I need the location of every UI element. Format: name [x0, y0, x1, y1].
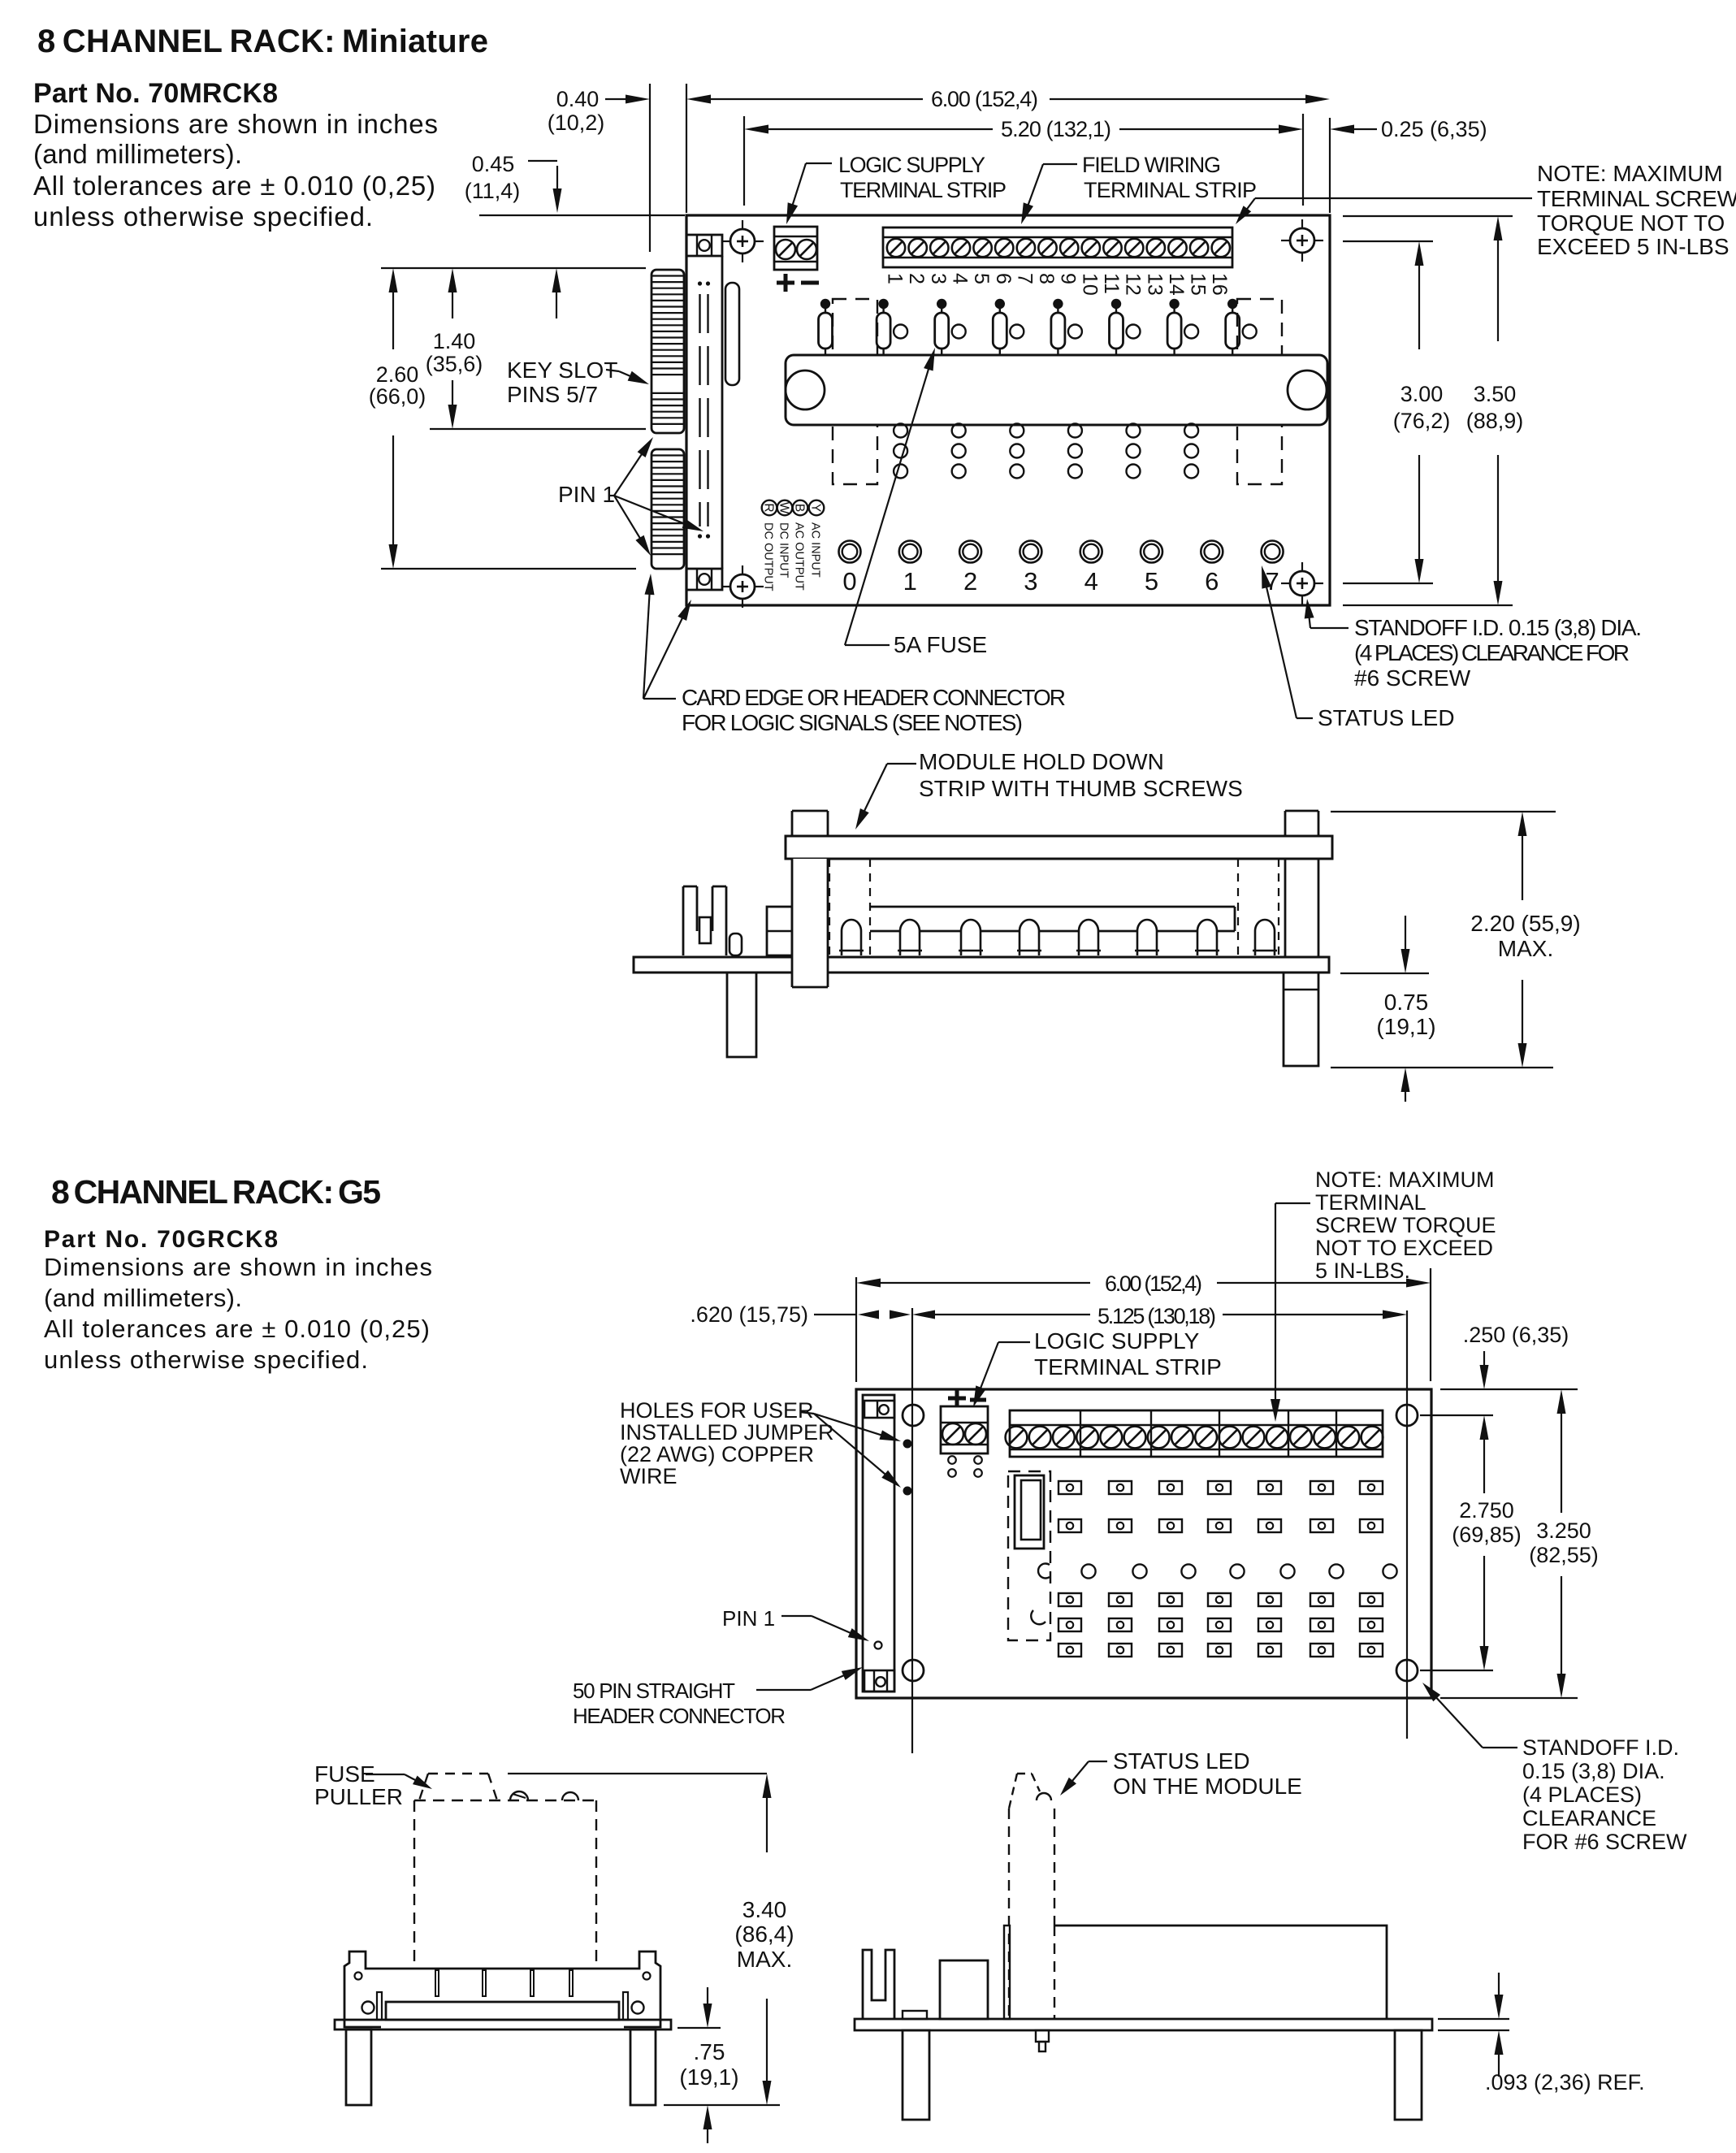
vertical legend text	[762, 522, 822, 591]
svg-text:(76,2): (76,2)	[1393, 409, 1451, 433]
svg-text:(10,2): (10,2)	[548, 110, 605, 135]
extension line board-right	[1329, 118, 1331, 213]
svg-text:6: 6	[992, 273, 1015, 284]
right leg	[1284, 973, 1318, 1066]
status LED dashed stack	[1009, 1774, 1054, 2019]
module body side	[1054, 1926, 1387, 2019]
left thumbscrew shaft through board	[792, 859, 828, 987]
polarity marks G5	[948, 1389, 986, 1407]
dim 0.45 (11,4)	[465, 152, 562, 213]
svg-text:2.60: 2.60	[376, 362, 419, 387]
dim 2.20 (55,9) MAX	[1331, 812, 1581, 1068]
svg-text:AC INPUT: AC INPUT	[809, 522, 822, 578]
svg-text:(19,1): (19,1)	[1376, 1014, 1435, 1039]
svg-text:FOR #6 SCREW: FOR #6 SCREW	[1522, 1830, 1687, 1854]
svg-text:R: R	[761, 503, 775, 512]
module hold down strip bar	[786, 355, 1327, 425]
dim 6.00 (152,4) G5	[856, 1271, 1431, 1296]
svg-text:(88,9): (88,9)	[1466, 409, 1524, 433]
mounting hole bottom-left	[730, 574, 755, 599]
legs lateral	[903, 2030, 929, 2120]
component pads grid G5	[1058, 1481, 1383, 1494]
dim 3.40 (86,4) MAX	[508, 1774, 794, 2105]
svg-text:STATUS LED: STATUS LED	[1318, 705, 1455, 730]
note maximum terminal screw torque G5	[1271, 1167, 1496, 1422]
construction line board right	[1430, 1268, 1431, 1381]
board-top reference line extended left	[479, 214, 685, 216]
dim 5.20 (132,1)	[744, 117, 1303, 141]
callout 5A FUSE	[845, 348, 987, 657]
left leg	[727, 973, 756, 1057]
svg-text:CLEARANCE: CLEARANCE	[1522, 1806, 1656, 1830]
callout PIN 1 with three leaders	[558, 437, 703, 556]
svg-text:(86,4): (86,4)	[734, 1921, 794, 1947]
svg-text:8 CHANNEL RACK: Miniature: 8 CHANNEL RACK: Miniature	[37, 24, 488, 59]
svg-text:(4 PLACES): (4 PLACES)	[1522, 1783, 1642, 1807]
svg-text:(and millimeters).: (and millimeters).	[33, 139, 242, 169]
svg-text:2.750: 2.750	[1459, 1498, 1514, 1523]
svg-text:9: 9	[1057, 273, 1080, 284]
svg-text:SCREW TORQUE: SCREW TORQUE	[1315, 1213, 1496, 1237]
note maximum terminal screw torque	[1236, 161, 1736, 259]
svg-text:All tolerances are ± 0.010 (0,: All tolerances are ± 0.010 (0,25)	[33, 171, 435, 201]
callout KEY SLOT PINS 5/7	[507, 357, 649, 407]
svg-text:.250 (6,35): .250 (6,35)	[1463, 1323, 1569, 1347]
construction line board left	[855, 1277, 857, 1382]
hold down strip bar side	[786, 836, 1332, 859]
svg-text:NOT TO EXCEED: NOT TO EXCEED	[1315, 1236, 1493, 1260]
svg-text:50 PIN STRAIGHT: 50 PIN STRAIGHT	[573, 1679, 735, 1703]
svg-text:STATUS LED: STATUS LED	[1113, 1748, 1250, 1774]
svg-text:(66,0): (66,0)	[369, 384, 426, 409]
svg-text:Y: Y	[808, 504, 822, 512]
right vertical dims reference lines	[1343, 215, 1513, 217]
svg-text:14: 14	[1165, 273, 1188, 296]
svg-text:INSTALLED JUMPER: INSTALLED JUMPER	[620, 1420, 834, 1445]
module dashed outline left pair	[829, 859, 830, 957]
socket lower bar	[362, 1992, 644, 2020]
svg-text:TERMINAL SCREW: TERMINAL SCREW	[1537, 186, 1736, 211]
board outline	[686, 215, 1330, 605]
connector pin rows (hidden lines)	[698, 281, 710, 538]
fork bracket left	[683, 886, 726, 955]
dim .093 (2,36) REF.	[1438, 1973, 1645, 2095]
screw tip under board	[1036, 2030, 1049, 2051]
socket left bracket	[344, 1952, 381, 2027]
svg-text:PIN 1: PIN 1	[722, 1606, 775, 1631]
svg-text:FOR LOGIC SIGNALS (SEE NOTES): FOR LOGIC SIGNALS (SEE NOTES)	[682, 710, 1023, 735]
svg-text:.620 (15,75): .620 (15,75)	[690, 1302, 808, 1327]
svg-text:3: 3	[1024, 567, 1037, 596]
baseboard	[634, 957, 1329, 973]
svg-text:5.125 (130,18): 5.125 (130,18)	[1097, 1304, 1216, 1328]
callout 50 PIN STRAIGHT HEADER CONNECTOR	[573, 1667, 863, 1728]
svg-text:10: 10	[1078, 273, 1101, 296]
svg-text:MAX.: MAX.	[1498, 936, 1553, 961]
svg-text:LOGIC SUPPLY: LOGIC SUPPLY	[838, 153, 985, 177]
key tab slot	[725, 283, 739, 385]
callout MODULE HOLD DOWN STRIP	[855, 749, 1243, 830]
mounting hole bottom-right	[1290, 571, 1314, 596]
svg-text:0.45: 0.45	[472, 152, 515, 176]
svg-text:PIN 1: PIN 1	[558, 482, 615, 507]
mounting hole top-left	[730, 229, 755, 253]
svg-text:#6 SCREW: #6 SCREW	[1354, 665, 1471, 691]
LED domes	[839, 920, 864, 955]
fuse F0	[819, 299, 833, 355]
svg-text:13: 13	[1143, 273, 1166, 296]
left thumbscrew post	[792, 811, 828, 836]
callout STATUS LED	[1262, 565, 1455, 730]
fuse F4	[1051, 299, 1082, 355]
color code circled letters	[761, 500, 824, 516]
logic supply terminal strip	[774, 227, 817, 270]
svg-text:LOGIC SUPPLY: LOGIC SUPPLY	[1034, 1328, 1200, 1354]
fuse F2	[935, 299, 966, 355]
mounting hole top-right	[1290, 228, 1314, 253]
svg-text:11: 11	[1100, 273, 1123, 294]
svg-text:7: 7	[1013, 273, 1036, 284]
board outline G5	[856, 1389, 1431, 1698]
svg-text:6: 6	[1205, 567, 1219, 596]
svg-text:(and millimeters).: (and millimeters).	[44, 1284, 242, 1312]
module dashed outline front	[414, 1800, 596, 1969]
callout CARD EDGE OR HEADER CONNECTOR	[643, 574, 1066, 735]
field wiring terminal strip G5	[1006, 1410, 1383, 1457]
status LED 1	[899, 541, 921, 563]
callout STANDOFF I.D. G5	[1422, 1683, 1687, 1854]
50 pin header connector body	[863, 1395, 894, 1692]
svg-text:HEADER CONNECTOR: HEADER CONNECTOR	[573, 1704, 786, 1728]
svg-text:2: 2	[905, 273, 928, 284]
fuse F5	[1110, 299, 1141, 355]
svg-text:8 CHANNEL RACK: G5: 8 CHANNEL RACK: G5	[51, 1173, 381, 1211]
svg-text:EXCEED 5 IN-LBS: EXCEED 5 IN-LBS	[1537, 234, 1730, 259]
fuse F3	[993, 299, 1024, 355]
svg-text:WIRE: WIRE	[620, 1464, 678, 1488]
svg-text:0.15 (3,8) DIA.: 0.15 (3,8) DIA.	[1522, 1759, 1665, 1783]
status LED 4	[1080, 541, 1102, 563]
pin 1 hole	[875, 1642, 882, 1649]
status LED 7	[1262, 541, 1284, 563]
callout STATUS LED ON THE MODULE	[1060, 1748, 1302, 1799]
dim 3.00 (76,2)	[1393, 241, 1451, 583]
svg-text:6.00 (152,4): 6.00 (152,4)	[931, 87, 1038, 111]
svg-text:5: 5	[970, 273, 993, 284]
svg-text:1.40: 1.40	[433, 329, 476, 353]
callout PIN 1 G5	[722, 1606, 869, 1641]
dim .75 (19,1) front	[678, 1987, 739, 2143]
svg-text:0.75: 0.75	[1384, 990, 1429, 1015]
svg-text:4: 4	[949, 273, 972, 284]
svg-text:8: 8	[1035, 273, 1058, 284]
terminal numbers 1-16	[884, 273, 1232, 296]
svg-text:(19,1): (19,1)	[679, 2064, 738, 2090]
svg-text:5 IN-LBS.: 5 IN-LBS.	[1315, 1258, 1410, 1283]
svg-text:15: 15	[1187, 273, 1210, 296]
svg-text:TERMINAL STRIP: TERMINAL STRIP	[1034, 1354, 1222, 1380]
dim 0.40 (10,2)	[548, 87, 650, 135]
svg-text:CARD EDGE OR HEADER CONNECTOR: CARD EDGE OR HEADER CONNECTOR	[682, 685, 1066, 710]
svg-text:MODULE HOLD DOWN: MODULE HOLD DOWN	[919, 749, 1164, 774]
svg-text:.093 (2,36) REF.: .093 (2,36) REF.	[1485, 2070, 1645, 2095]
left vertical dims reference lines	[381, 267, 646, 269]
LED bumps on module top	[510, 1791, 578, 1800]
svg-text:STANDOFF I.D.: STANDOFF I.D.	[1522, 1735, 1679, 1760]
svg-text:Part No. 70MRCK8: Part No. 70MRCK8	[33, 78, 278, 109]
dim 2.60 (66,0)	[369, 268, 426, 569]
callout STANDOFF I.D.	[1305, 599, 1642, 691]
svg-text:2: 2	[963, 567, 977, 596]
svg-text:5A FUSE: 5A FUSE	[894, 632, 987, 657]
svg-text:unless otherwise specified.: unless otherwise specified.	[44, 1345, 368, 1374]
svg-text:(35,6): (35,6)	[426, 352, 483, 376]
svg-text:0: 0	[842, 567, 856, 596]
callout HOLES FOR USER INSTALLED JUMPER	[620, 1398, 901, 1488]
svg-text:TERMINAL: TERMINAL	[1315, 1190, 1426, 1215]
construction line right hole column	[1406, 1310, 1408, 1739]
svg-text:NOTE: MAXIMUM: NOTE: MAXIMUM	[1315, 1167, 1495, 1192]
dim 1.40 (35,6)	[426, 268, 483, 429]
svg-text:(22 AWG) COPPER: (22 AWG) COPPER	[620, 1442, 814, 1466]
extension line hole column left	[743, 116, 745, 206]
thin wall	[1004, 1926, 1010, 2019]
svg-text:3.250: 3.250	[1536, 1518, 1591, 1543]
svg-text:Dimensions are shown in inches: Dimensions are shown in inches	[33, 109, 438, 139]
logic supply terminal strip G5	[941, 1406, 988, 1477]
svg-text:3.50: 3.50	[1474, 382, 1517, 406]
svg-text:16: 16	[1208, 273, 1231, 296]
component pad circles grid	[894, 424, 1198, 479]
svg-text:2.20 (55,9): 2.20 (55,9)	[1470, 911, 1580, 936]
module dashed outline right pair	[1237, 859, 1239, 957]
svg-text:(69,85): (69,85)	[1452, 1523, 1522, 1547]
dim .620 (15,75)	[690, 1302, 911, 1327]
svg-text:unless otherwise specified.: unless otherwise specified.	[33, 201, 373, 232]
tolerance paragraph G5	[44, 1253, 432, 1374]
extra up arrow on comb-top line	[556, 283, 557, 318]
svg-text:TERMINAL STRIP: TERMINAL STRIP	[1084, 178, 1257, 202]
svg-text:3.00: 3.00	[1400, 382, 1444, 406]
connector body right edge	[721, 256, 724, 569]
svg-text:.75: .75	[694, 2039, 725, 2064]
extension line hole column right	[1302, 114, 1304, 206]
svg-text:AC OUTPUT: AC OUTPUT	[793, 522, 806, 591]
status LED 2	[959, 541, 981, 563]
baseboard front	[335, 2020, 671, 2030]
dim .250 (6,35)	[1463, 1323, 1569, 1389]
svg-text:NOTE: MAXIMUM: NOTE: MAXIMUM	[1537, 161, 1723, 186]
svg-text:3: 3	[927, 273, 950, 284]
tolerance paragraph	[33, 109, 438, 232]
card edge connector comb lower block	[652, 449, 684, 569]
module position dashed outline right	[1237, 299, 1282, 484]
svg-text:HOLES FOR USER: HOLES FOR USER	[620, 1398, 814, 1423]
svg-text:B: B	[792, 504, 806, 512]
dim 6.00 (152,4)	[686, 87, 1330, 111]
dim 0.75 (19,1)	[1340, 916, 1436, 1102]
construction line left hole column	[911, 1308, 913, 1753]
field wiring terminal strip	[883, 227, 1232, 267]
extension line board-left	[686, 84, 687, 213]
fork bracket G5 side	[863, 1950, 894, 2019]
svg-text:0.40: 0.40	[556, 87, 600, 111]
svg-text:12: 12	[1122, 273, 1145, 296]
dim 2.750 (69,85)	[1452, 1415, 1522, 1670]
fuse holder with dashed outline	[1008, 1471, 1050, 1640]
svg-text:5.20 (132,1): 5.20 (132,1)	[1001, 117, 1111, 141]
socket right bracket	[624, 1952, 660, 2027]
svg-text:DC INPUT: DC INPUT	[777, 522, 790, 578]
svg-text:STRIP WITH THUMB SCREWS: STRIP WITH THUMB SCREWS	[919, 776, 1243, 801]
svg-text:(82,55): (82,55)	[1529, 1543, 1599, 1567]
svg-text:DC OUTPUT: DC OUTPUT	[762, 522, 775, 591]
status LED 5	[1141, 541, 1162, 563]
svg-text:(4 PLACES) CLEARANCE FOR: (4 PLACES) CLEARANCE FOR	[1354, 640, 1630, 665]
status LED 3	[1020, 541, 1041, 563]
right thumbscrew post	[1285, 811, 1318, 957]
svg-text:All tolerances are ± 0.010 (0,: All tolerances are ± 0.010 (0,25)	[44, 1315, 430, 1343]
card edge connector comb upper block	[652, 270, 684, 433]
svg-text:STANDOFF I.D. 0.15 (3,8) DIA.: STANDOFF I.D. 0.15 (3,8) DIA.	[1354, 615, 1642, 640]
svg-text:Dimensions are shown in inches: Dimensions are shown in inches	[44, 1253, 432, 1281]
status LED 6	[1201, 541, 1223, 563]
svg-text:1: 1	[884, 273, 907, 284]
dim 3.50 (88,9)	[1466, 216, 1524, 605]
dim 3.250 (82,55)	[1529, 1389, 1599, 1698]
svg-text:3.40: 3.40	[742, 1897, 787, 1922]
reference lines right G5	[1440, 1388, 1578, 1390]
svg-text:5: 5	[1145, 567, 1158, 596]
svg-text:KEY SLOT: KEY SLOT	[507, 357, 617, 383]
svg-text:PULLER: PULLER	[314, 1784, 403, 1809]
callout FIELD WIRING TERMINAL STRIP	[1021, 153, 1257, 224]
svg-text:FIELD WIRING: FIELD WIRING	[1082, 153, 1221, 177]
module position dashed outline left	[833, 299, 877, 484]
plain hole circles row	[1081, 1564, 1396, 1578]
callout FUSE PULLER	[314, 1761, 432, 1809]
fuse F1	[877, 299, 907, 355]
svg-text:MAX.: MAX.	[737, 1947, 792, 1972]
jumper holes	[903, 1440, 912, 1449]
connector profile block	[767, 907, 792, 955]
fuse F7	[1226, 299, 1257, 355]
LED digit labels	[842, 567, 1279, 596]
svg-text:1: 1	[903, 567, 917, 596]
baseboard lateral	[855, 2019, 1432, 2030]
fuse F6	[1167, 299, 1198, 355]
callout LOGIC SUPPLY TERMINAL STRIP	[786, 153, 1007, 224]
svg-text:(11,4): (11,4)	[465, 179, 521, 203]
mounting holes G5	[903, 1405, 924, 1426]
svg-text:TORQUE NOT TO: TORQUE NOT TO	[1537, 210, 1725, 236]
socket strip profile	[870, 907, 1235, 931]
svg-text:4: 4	[1084, 567, 1098, 596]
svg-text:TERMINAL STRIP: TERMINAL STRIP	[840, 178, 1007, 202]
svg-text:W: W	[777, 502, 790, 514]
dim 0.25 (6,35)	[1330, 117, 1487, 141]
polarity marks + -	[777, 274, 819, 292]
extension line comb-left	[649, 84, 651, 252]
svg-text:0.25 (6,35): 0.25 (6,35)	[1381, 117, 1487, 141]
terminal block profile	[940, 1960, 988, 2019]
fuse puller dashed trapezoid	[419, 1774, 497, 1800]
socket top edge with pin slots	[381, 1969, 624, 1996]
svg-text:ON THE MODULE: ON THE MODULE	[1113, 1774, 1302, 1799]
legs front	[346, 2030, 371, 2105]
svg-text:PINS 5/7: PINS 5/7	[507, 382, 598, 407]
callout LOGIC SUPPLY TERMINAL STRIP G5	[973, 1328, 1222, 1407]
small pad under fork	[903, 2011, 927, 2019]
connector bottom polarization block	[686, 569, 722, 590]
small tab	[729, 934, 742, 955]
connector top polarization block	[686, 235, 722, 256]
status LED 0	[839, 541, 861, 563]
dim 5.125 (130,18)	[912, 1304, 1407, 1328]
svg-text:Part No. 70GRCK8: Part No. 70GRCK8	[44, 1226, 278, 1253]
svg-text:6.00 (152,4): 6.00 (152,4)	[1105, 1271, 1202, 1296]
